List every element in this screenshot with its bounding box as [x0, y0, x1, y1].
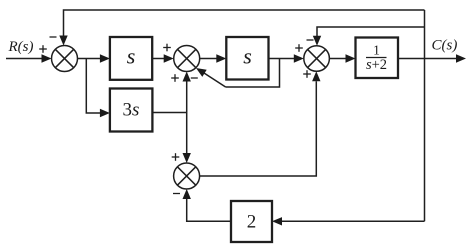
wire 3s block output to node: [152, 112, 186, 114]
wire 3s output node down into S4 top: [186, 113, 188, 154]
block B4 transfer function 1/(s+2): [356, 38, 399, 79]
S1 minus sign (outer feedback): [50, 36, 57, 38]
S3 minus sign (feedback from output): [307, 39, 314, 41]
wire inner feedback loop from node after B3 down and diagonally into S2: [226, 59, 280, 88]
wire second feedback from output spine down into S3 top: [317, 27, 425, 38]
block B2 gain 3s: [110, 89, 152, 132]
block B1 gain s: [110, 37, 152, 80]
S4 plus sign (from 3s above): [172, 153, 180, 161]
svg-text:1: 1: [373, 43, 380, 58]
block B5 gain 2: [231, 201, 272, 242]
summing junction S1: [52, 46, 78, 72]
wire S1 output to block B1: [78, 58, 102, 60]
wire B5 output into summing junction S4: [187, 199, 231, 222]
svg-text:s: s: [243, 44, 252, 69]
block B3 gain s: [226, 37, 268, 80]
wire S2 output to block B3: [200, 58, 218, 60]
wire S4 output right and up into S3 bottom: [200, 81, 317, 176]
wire B3 output to summing junction S3: [269, 58, 295, 60]
svg-text:R(s): R(s): [8, 39, 34, 55]
svg-text:2: 2: [247, 212, 257, 233]
wire R(s) input to summing junction S1: [6, 58, 43, 60]
summing junction S4: [174, 163, 200, 189]
wire takeoff node to 3s branch: [86, 59, 101, 114]
S3 plus sign (from S4 below): [303, 70, 311, 78]
wire output node vertical spine: [424, 10, 426, 221]
S2 minus sign (inner loop diagonal): [191, 77, 198, 79]
summing junction S3: [304, 46, 330, 72]
wire B1 output to summing junction S2: [152, 58, 165, 60]
svg-text:C(s): C(s): [432, 37, 458, 53]
wire 3s output node up into S2: [186, 81, 188, 113]
svg-text:3s: 3s: [123, 100, 140, 121]
block B4 fraction bar: [366, 57, 387, 59]
wire S3 output to block B4: [329, 58, 346, 60]
S2 plus sign (from 3s below): [171, 74, 179, 82]
S4 minus sign (from block 2): [173, 193, 180, 195]
svg-text:s+2: s+2: [366, 57, 387, 73]
S2 plus sign (from B1): [163, 44, 171, 52]
wire bottom feedback from spine into block B5: [281, 220, 425, 222]
wire outer feedback: top line from output spine into S1: [64, 10, 425, 38]
wire B4 output to C(s): [398, 58, 457, 60]
summing junction S2: [174, 46, 200, 72]
S1 plus sign (input): [39, 45, 47, 53]
S3 plus sign (from B3): [295, 44, 303, 52]
svg-text:s: s: [127, 44, 136, 69]
